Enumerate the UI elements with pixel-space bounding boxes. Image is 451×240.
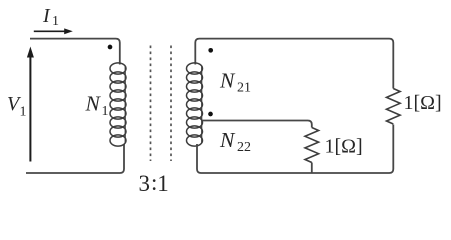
resistor right load zigzag [386,89,400,125]
dot primary polarity [108,45,113,50]
svg-text:21: 21 [237,81,251,96]
svg-text:3: 3 [139,171,151,196]
wire secondary tap to load resistor [203,121,312,128]
svg-text:1[Ω]: 1[Ω] [404,92,442,114]
svg-text:N: N [85,92,102,116]
wire tap resistor bottom stub [311,163,313,174]
wire top-left horizontal into primary top stub [30,39,120,65]
svg-text:N: N [219,128,236,152]
inductor secondary winding N21/N22 [187,63,203,146]
svg-text:1[Ω]: 1[Ω] [325,136,363,158]
svg-text:1: 1 [157,171,169,196]
wire right vertical bottom + bottom-right horizontal to secondary bottom stub [197,125,393,174]
voltage arrow V1 [27,47,34,162]
dot secondary top polarity [208,48,213,53]
dot secondary tap polarity [208,112,213,117]
svg-text:1: 1 [52,14,59,29]
core dashed line left [150,46,152,162]
svg-text:1: 1 [20,105,27,120]
label 3:1 [139,170,169,196]
current arrow I1 [34,28,73,34]
core dashed line right [170,46,172,162]
wire top-right horizontal from secondary top stub to right corner [195,39,393,89]
wire bottom-left horizontal from primary bottom stub [26,144,124,173]
svg-text:N: N [219,69,236,93]
svg-text:22: 22 [237,140,251,155]
svg-text:1: 1 [102,104,109,119]
inductor primary winding N1 [110,63,126,146]
resistor tap load zigzag [305,128,319,163]
svg-text:I: I [42,5,51,27]
